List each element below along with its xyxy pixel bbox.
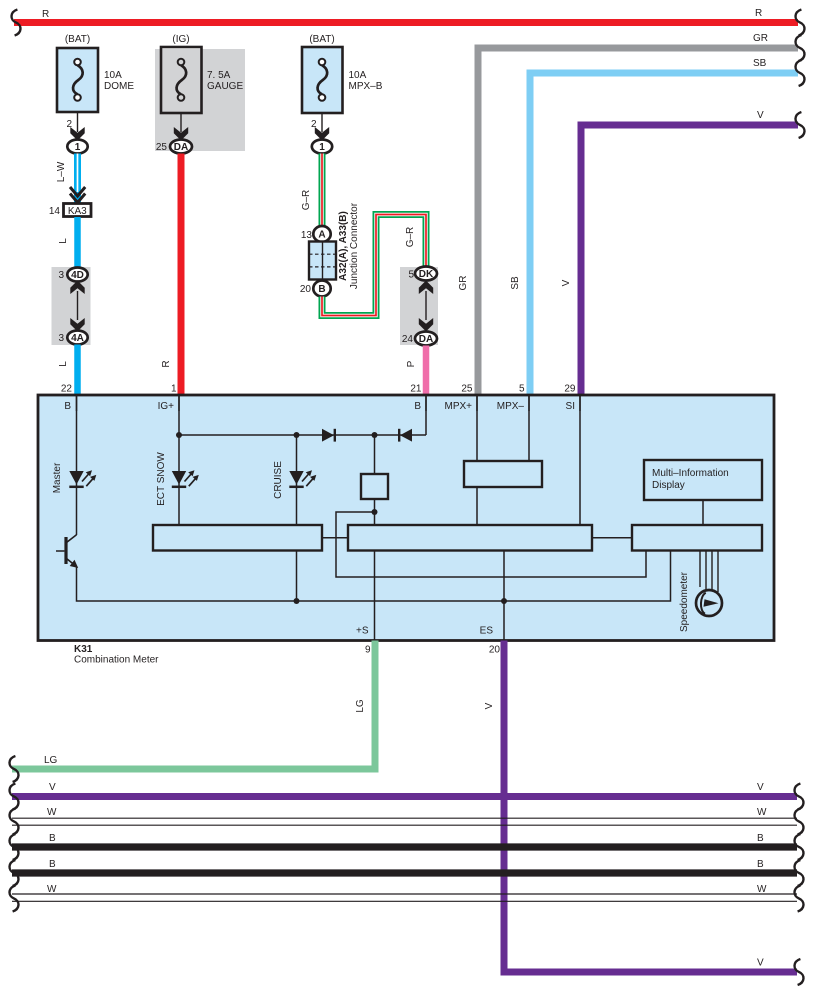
junction connector A32/A33 [300, 202, 360, 296]
wire L-W (blue/white) [56, 154, 85, 205]
svg-text:Junction Connector: Junction Connector [349, 202, 360, 289]
svg-text:4A: 4A [71, 333, 84, 344]
svg-text:29: 29 [564, 384, 576, 395]
wire loop A [336, 512, 646, 577]
svg-text:MPX+: MPX+ [444, 401, 472, 412]
LED ECT SNOW [172, 470, 199, 487]
wire link middle-right [592, 537, 632, 539]
wire B horizontal 2 [10, 859, 804, 886]
diode D2 [400, 429, 412, 442]
connector mating arrows 4D-4A [70, 281, 84, 295]
Multi-Information Display box [644, 460, 762, 500]
svg-text:25: 25 [461, 384, 473, 395]
svg-text:LG: LG [44, 755, 58, 766]
splice double chevron [70, 187, 85, 203]
wire IG+ bus horizontal [179, 434, 426, 436]
svg-text:20: 20 [489, 645, 501, 656]
connector pin 24 DA oval [402, 332, 437, 346]
svg-text:Multi–Information: Multi–Information [652, 468, 729, 479]
svg-text:W: W [47, 884, 57, 895]
squiggle V [796, 112, 805, 138]
svg-text:V: V [484, 702, 495, 709]
svg-text:9: 9 [365, 645, 371, 656]
svg-text:20: 20 [300, 284, 312, 295]
svg-text:R: R [161, 360, 172, 367]
svg-text:24: 24 [402, 334, 414, 345]
junction dot [372, 432, 378, 438]
svg-text:10A: 10A [349, 70, 367, 81]
svg-text:+S: +S [356, 626, 369, 637]
LED CRUISE [289, 470, 316, 487]
wire MID down [702, 500, 704, 525]
pin mark 5/MPX- [528, 396, 530, 411]
resistor block U2 small square [374, 435, 376, 474]
svg-text:3: 3 [58, 270, 64, 281]
svg-text:R: R [755, 8, 762, 19]
svg-text:G–R: G–R [405, 227, 416, 248]
wire ES vertical [503, 551, 505, 640]
svg-text:7. 5A: 7. 5A [207, 70, 231, 81]
svg-text:L–W: L–W [56, 161, 67, 182]
svg-text:GAUGE: GAUGE [207, 81, 243, 92]
svg-text:ECT SNOW: ECT SNOW [156, 452, 167, 506]
wire CRUISE branch vertical [296, 435, 298, 525]
svg-text:B: B [414, 401, 421, 412]
IC block right [632, 525, 762, 551]
svg-text:B: B [757, 859, 764, 870]
svg-text:1: 1 [75, 142, 81, 153]
svg-text:B: B [318, 284, 325, 295]
svg-text:DOME: DOME [104, 81, 134, 92]
connector pin 1 oval [67, 140, 87, 154]
svg-text:B: B [757, 833, 764, 844]
wire MPX block down [476, 487, 478, 525]
wire B pin 21 vertical [425, 396, 427, 435]
transistor Q1 [56, 535, 78, 568]
connector mating arrows DK-DA [419, 281, 433, 295]
svg-text:(BAT): (BAT) [65, 34, 90, 45]
connector pin 3 4D oval [58, 268, 87, 282]
wire IG+ vertical [178, 396, 180, 525]
fuse F1 element [73, 65, 83, 94]
wire V violet top [581, 125, 798, 396]
wire R vertical to IG+ [178, 154, 185, 397]
svg-text:5: 5 [519, 384, 525, 395]
wire emitter down and bus B [77, 551, 671, 601]
connector panel 4D/4A gray [52, 267, 91, 345]
svg-text:4D: 4D [71, 270, 84, 281]
svg-text:5: 5 [408, 270, 414, 281]
wire G-R loop to DK [322, 215, 426, 316]
connector pin 5 DK oval [408, 267, 437, 281]
svg-text:Combination Meter: Combination Meter [74, 654, 159, 665]
squiggle V bottom [795, 959, 804, 985]
wire MPX- vertical [528, 396, 530, 461]
svg-text:10A: 10A [104, 70, 122, 81]
svg-text:B: B [49, 859, 56, 870]
wire R top horizontal [14, 19, 798, 26]
svg-text:MPX–: MPX– [497, 401, 525, 412]
svg-text:P: P [406, 360, 417, 367]
svg-text:B: B [64, 401, 71, 412]
wire continuation squiggle right R [796, 10, 805, 36]
speedometer wires [699, 551, 701, 587]
svg-text:GR: GR [753, 33, 768, 44]
fuse F3 MPX-B box [302, 47, 343, 113]
combination meter K31 box [38, 395, 774, 641]
junction dot [372, 509, 378, 515]
connector arrow down [315, 127, 329, 141]
svg-text:21: 21 [410, 384, 422, 395]
wire SI vertical [579, 396, 581, 525]
MPX interface block [464, 461, 542, 487]
connector panel DK/DA gray [400, 267, 438, 345]
wire fuse to connector [321, 113, 323, 132]
svg-text:14: 14 [49, 206, 61, 217]
svg-text:W: W [757, 884, 767, 895]
svg-text:V: V [757, 958, 764, 969]
connector 14 KA3 [49, 204, 91, 218]
pin mark 25/MPX+ [476, 396, 478, 411]
svg-text:SI: SI [566, 401, 575, 412]
pin mark 29/SI [579, 396, 581, 411]
wire V horizontal [12, 793, 797, 800]
pin mark 21/B [425, 396, 427, 411]
svg-text:A: A [318, 230, 325, 241]
junction connector body [309, 242, 336, 280]
wire continuation squiggle left R [12, 10, 21, 36]
wire link left-middle [322, 537, 348, 539]
squiggle SB [796, 60, 805, 86]
speedometer symbol [696, 590, 722, 616]
fuse MPX-B block [302, 34, 383, 154]
wire fuse to connector [180, 113, 182, 132]
svg-text:MPX–B: MPX–B [349, 81, 383, 92]
fuse DOME block [57, 34, 134, 154]
svg-text:ES: ES [480, 626, 494, 637]
wire fuse to connector [77, 112, 79, 132]
svg-text:G–R: G–R [301, 190, 312, 211]
wire master branch vertical [76, 396, 78, 535]
svg-text:DK: DK [419, 269, 434, 280]
wire P pink [423, 346, 430, 397]
svg-text:Display: Display [652, 480, 685, 491]
svg-text:Speedometer: Speedometer [679, 571, 690, 632]
svg-text:IG+: IG+ [158, 401, 175, 412]
junction dot [294, 432, 300, 438]
svg-text:CRUISE: CRUISE [273, 461, 284, 499]
wire +S vertical [374, 551, 376, 640]
fuse F2 element [177, 65, 187, 94]
diode D1 [322, 429, 334, 442]
wire SB skyblue [530, 73, 798, 396]
junction dot [176, 432, 182, 438]
junction dot [501, 598, 507, 604]
svg-text:DA: DA [419, 334, 433, 345]
fuse F1 DOME box [57, 48, 98, 112]
svg-text:(IG): (IG) [172, 34, 189, 45]
svg-text:13: 13 [301, 230, 313, 241]
svg-text:1: 1 [171, 384, 177, 395]
svg-text:SB: SB [753, 58, 767, 69]
svg-text:L: L [58, 238, 69, 244]
svg-text:B: B [49, 833, 56, 844]
svg-text:3: 3 [58, 333, 64, 344]
svg-text:V: V [757, 782, 764, 793]
svg-text:L: L [58, 361, 69, 367]
squiggle GR [796, 35, 805, 61]
wire GR gray [478, 48, 798, 396]
svg-text:(BAT): (BAT) [309, 34, 334, 45]
svg-text:W: W [47, 807, 57, 818]
connector arrow down [174, 127, 188, 141]
connector pin 3 4A oval [58, 331, 87, 345]
svg-text:V: V [757, 110, 764, 121]
pin mark 1/IG+ [178, 396, 180, 411]
squiggle LG [10, 756, 19, 782]
fuse F3 element [318, 65, 328, 94]
wire G-R upper [301, 154, 322, 227]
svg-text:GR: GR [458, 276, 469, 291]
svg-text:V: V [561, 279, 572, 286]
wire B horizontal 1 [10, 833, 804, 860]
fuse F2 GAUGE box [161, 47, 202, 113]
wire W horizontal 1 [10, 807, 804, 835]
svg-text:R: R [42, 9, 49, 20]
svg-text:LG: LG [355, 699, 366, 713]
connector pin 1 oval [312, 140, 332, 154]
wire CRUISE below rect [296, 551, 298, 602]
wire MPX+ vertical [476, 396, 478, 461]
svg-text:V: V [49, 782, 56, 793]
wire W horizontal 2 [10, 884, 804, 912]
wire L lower [74, 345, 81, 397]
IC block middle [348, 525, 592, 551]
svg-text:Master: Master [52, 462, 63, 493]
fuse GAUGE gray panel [155, 49, 245, 151]
svg-text:22: 22 [61, 384, 73, 395]
junction dot [294, 598, 300, 604]
svg-text:1: 1 [319, 142, 325, 153]
IC block left [153, 525, 322, 551]
connector arrow down [70, 127, 84, 141]
svg-text:A32(A), A33(B): A32(A), A33(B) [338, 211, 349, 281]
wire L upper [74, 217, 81, 268]
wire V from ES [504, 641, 797, 973]
wire LG from +S [12, 641, 375, 770]
pin mark 22/B [76, 396, 78, 411]
svg-text:KA3: KA3 [68, 206, 87, 217]
svg-text:SB: SB [510, 276, 521, 290]
svg-text:25: 25 [156, 142, 168, 153]
LED Master [69, 470, 96, 487]
svg-text:W: W [757, 807, 767, 818]
svg-text:DA: DA [174, 142, 188, 153]
fuse GAUGE block [156, 34, 244, 154]
